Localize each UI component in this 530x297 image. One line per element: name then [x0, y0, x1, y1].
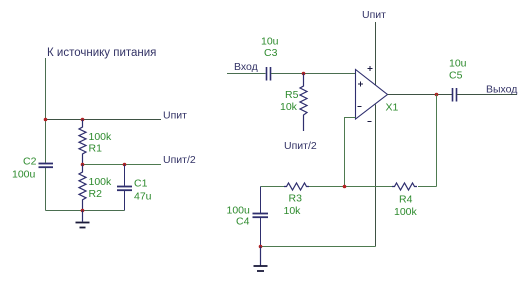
wire: inverting input L: [345, 118, 356, 187]
node: R1 top junction: [81, 118, 85, 122]
svg-text:47u: 47u: [134, 191, 152, 203]
wire: input lead: [227, 73, 266, 75]
svg-text:К источнику питания: К источнику питания: [47, 47, 156, 59]
svg-text:10u: 10u: [261, 36, 279, 48]
node: C1 top junction: [123, 163, 127, 167]
wire: C3 to op-amp: [271, 73, 355, 75]
svg-text:100k: 100k: [89, 131, 113, 143]
node: rail / Uпит junction: [44, 118, 48, 122]
capacitor C2: [39, 163, 54, 165]
wire: feedback horizontal segments: [261, 186, 437, 188]
op-amp X1 negative supply minus sign: [368, 121, 372, 123]
resistor R5: [300, 74, 307, 132]
svg-text:Выход: Выход: [486, 84, 517, 96]
svg-text:Uпит/2: Uпит/2: [163, 154, 196, 166]
capacitor C4: [260, 187, 262, 214]
node: inverting node junction: [343, 185, 347, 189]
ground: right ground: [260, 247, 262, 266]
wire: to output terminal: [457, 94, 517, 96]
svg-text:Вход: Вход: [234, 61, 258, 73]
svg-text:Uпит: Uпит: [362, 9, 386, 21]
svg-text:Uпит: Uпит: [163, 110, 187, 122]
node: ground junction left: [81, 209, 85, 213]
svg-text:R5: R5: [285, 89, 299, 101]
capacitor C5: [452, 88, 454, 102]
wire: output: [388, 94, 453, 96]
wire: bottom return: [46, 210, 125, 212]
svg-text:100k: 100k: [89, 176, 113, 188]
svg-text:Uпит/2: Uпит/2: [284, 140, 317, 152]
wire: Uпит/2 horizontal: [83, 164, 162, 166]
svg-text:R1: R1: [89, 143, 103, 155]
wire: V+ supply vertical: [375, 22, 377, 85]
wire: lower ground run: [261, 246, 376, 248]
resistor R1: [79, 120, 86, 165]
svg-text:X1: X1: [386, 102, 399, 114]
node: output junction: [435, 93, 439, 97]
svg-text:C2: C2: [23, 156, 37, 168]
svg-text:C5: C5: [449, 70, 463, 82]
resistor R4: [392, 183, 417, 190]
wire: Uпит horizontal: [46, 119, 162, 121]
svg-text:R3: R3: [289, 193, 303, 205]
node: R5 junction: [302, 72, 306, 76]
svg-text:C3: C3: [264, 47, 278, 59]
op-amp X1 positive supply plus sign: [368, 66, 373, 71]
ground: left divider ground: [82, 211, 84, 222]
svg-text:100k: 100k: [394, 206, 418, 218]
wire: left supply rail: [45, 58, 47, 211]
wire: V- supply vertical: [375, 105, 377, 247]
op-amp X1 inverting input minus sign: [358, 106, 362, 108]
svg-text:C4: C4: [236, 216, 250, 228]
svg-text:10k: 10k: [280, 101, 298, 113]
svg-text:R4: R4: [399, 194, 413, 206]
capacitor C3: [266, 67, 268, 81]
node: ground junction right: [259, 245, 263, 249]
svg-text:10k: 10k: [284, 205, 302, 217]
capacitor C1: [124, 165, 126, 186]
svg-text:C1: C1: [134, 178, 148, 190]
svg-text:100u: 100u: [12, 169, 36, 181]
op-amp X1 body: [356, 70, 388, 120]
node: R1/R2 junction: [81, 163, 85, 167]
wire: feedback vertical: [436, 95, 438, 187]
op-amp X1 non-inverting input plus sign: [358, 82, 363, 87]
resistor R2: [79, 165, 86, 211]
resistor R3: [284, 183, 309, 190]
svg-text:R2: R2: [89, 188, 103, 200]
svg-text:10u: 10u: [449, 58, 467, 70]
